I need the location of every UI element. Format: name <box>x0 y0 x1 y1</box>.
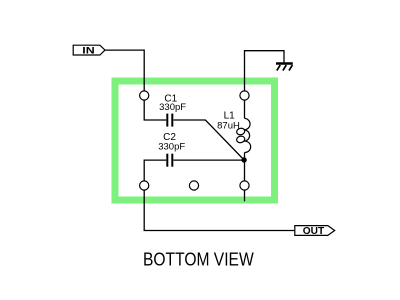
svg-text:BOTTOM VIEW: BOTTOM VIEW <box>143 250 254 270</box>
wire C2 left plate to pin 3 <box>144 160 166 181</box>
wire pin 2 to L1 top <box>244 100 246 118</box>
wire pin 5 stub to can edge <box>244 190 246 201</box>
capacitor C1 <box>167 114 172 127</box>
wire IN flag to pin 1 <box>105 50 144 91</box>
inductor L1 <box>236 118 251 152</box>
wire pin 2 to ground <box>245 51 285 91</box>
pin 1 (top left) <box>140 91 149 100</box>
net flag OUT <box>295 226 335 237</box>
capacitor C2 <box>167 154 172 167</box>
wire C2 right plate to junction <box>173 159 244 161</box>
filter can outline (bottom view) <box>115 81 275 200</box>
wire pin 1 to C1 left plate <box>144 100 166 120</box>
svg-text:OUT: OUT <box>303 226 324 237</box>
net flag IN <box>73 45 105 55</box>
pin 5 (bottom right) <box>240 181 249 190</box>
svg-text:87uH: 87uH <box>217 120 240 131</box>
pin 2 (top right) <box>240 91 249 100</box>
ground <box>276 64 293 71</box>
wire L1 bottom through junction to pin 5 <box>244 153 246 181</box>
svg-text:330pF: 330pF <box>159 102 186 113</box>
pin 4 (case, bottom centre) <box>189 181 198 190</box>
wire C1 right plate to junction (diagonal) <box>173 120 244 160</box>
svg-text:IN: IN <box>82 45 94 55</box>
wire pin 3 to OUT flag <box>144 190 295 230</box>
svg-text:330pF: 330pF <box>158 142 185 153</box>
pin 3 (bottom left) <box>140 181 149 190</box>
junction <box>241 157 246 162</box>
